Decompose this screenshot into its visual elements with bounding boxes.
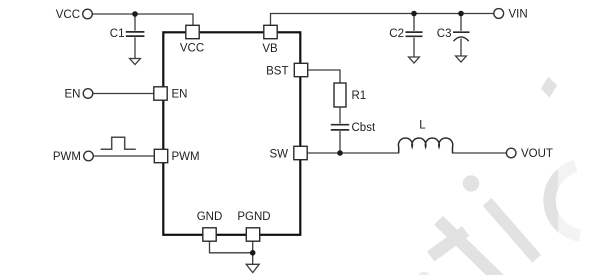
terminal VIN (494, 9, 504, 19)
svg-text:C3: C3 (437, 28, 452, 40)
wire C3 to ground (460, 39, 462, 57)
svg-text:C2: C2 (389, 28, 404, 40)
capacitor Cbst (331, 125, 349, 130)
capacitor C2 (406, 32, 423, 36)
wire VB pin to VIN (271, 14, 494, 26)
ground symbol C2 (409, 57, 420, 63)
terminal PWM (84, 151, 94, 161)
svg-text:PWM: PWM (172, 151, 200, 163)
pin EN (154, 87, 167, 100)
wire inductor to VOUT (453, 152, 507, 154)
wire GND pin to junction (210, 242, 253, 253)
svg-text:Cbst: Cbst (352, 122, 376, 134)
svg-text:VB: VB (262, 43, 278, 55)
svg-text:SW: SW (269, 149, 288, 161)
svg-text:PGND: PGND (237, 211, 270, 223)
pin VB (264, 25, 277, 38)
ground symbol PGND (246, 264, 259, 272)
svg-text:C1: C1 (110, 28, 125, 40)
svg-text:VIN: VIN (509, 9, 528, 21)
junction node at C3 (458, 11, 464, 17)
wire SW pin to inductor (307, 152, 399, 154)
pin VCC (186, 25, 199, 38)
junction node SW/Cbst (337, 150, 343, 156)
terminal VOUT (506, 148, 516, 158)
pin GND (203, 228, 216, 241)
wire R1 to Cbst (339, 107, 341, 124)
svg-text:VCC: VCC (180, 43, 204, 55)
wire C1 upper (134, 14, 136, 31)
pulse symbol at PWM input (101, 137, 136, 149)
svg-text:L: L (419, 120, 426, 132)
svg-text:GND: GND (197, 211, 223, 223)
svg-text:EN: EN (65, 89, 81, 101)
ground symbol C3 (456, 56, 467, 62)
capacitor C3 polarized (453, 32, 470, 41)
inductor L (398, 138, 452, 153)
svg-text:VCC: VCC (56, 9, 80, 21)
terminal EN (83, 89, 93, 99)
svg-text:BST: BST (266, 66, 288, 78)
wire EN terminal to EN pin (93, 93, 154, 95)
watermark (419, 77, 580, 275)
wire C1 to ground (134, 37, 136, 58)
wire BST pin to R1 (308, 70, 341, 83)
resistor R1 (334, 83, 346, 107)
junction node GND/PGND (250, 250, 256, 256)
svg-text:VOUT: VOUT (521, 148, 553, 160)
pin SW (294, 146, 307, 159)
wire VCC terminal to VCC pin (92, 14, 193, 26)
IC body U1 (163, 32, 300, 235)
wire PWM terminal to PWM pin (93, 155, 154, 157)
pin PGND (246, 228, 259, 241)
wire C2 to ground (413, 38, 415, 57)
pin BST (294, 63, 307, 76)
wire Cbst to SW net (339, 131, 341, 153)
wire PGND pin to ground (252, 242, 254, 265)
ground symbol C1 (130, 59, 141, 65)
junction node at C1 (132, 11, 138, 17)
svg-text:EN: EN (172, 89, 188, 101)
wire C2 upper (413, 14, 415, 31)
svg-text:PWM: PWM (53, 151, 81, 163)
pin PWM (154, 149, 167, 162)
wire C3 upper (460, 14, 462, 31)
junction node at C2 (411, 11, 417, 17)
terminal VCC (83, 9, 93, 19)
capacitor C1 (126, 32, 145, 36)
svg-text:R1: R1 (352, 90, 367, 102)
